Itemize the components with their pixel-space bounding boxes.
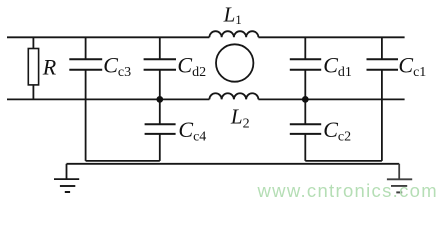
choke core circle bbox=[216, 44, 253, 81]
junction dot node at Cd2/middle rail bbox=[156, 96, 163, 103]
ground right bbox=[387, 164, 412, 193]
svg-text:L2: L2 bbox=[230, 105, 250, 132]
wire middle rail left segment bbox=[7, 98, 209, 100]
svg-text:Cc1: Cc1 bbox=[398, 53, 426, 81]
wire bottom ground rail bbox=[67, 163, 400, 165]
svg-text:Cc2: Cc2 bbox=[323, 117, 351, 145]
inductor L1 bbox=[209, 31, 258, 37]
capacitor Cc2 bbox=[290, 124, 321, 161]
svg-text:www.cntronics.com: www.cntronics.com bbox=[257, 180, 438, 201]
junction dot node at Cd1/middle rail bbox=[302, 96, 309, 103]
svg-text:Cc3: Cc3 bbox=[103, 52, 131, 80]
svg-text:L1: L1 bbox=[223, 3, 242, 28]
svg-text:R: R bbox=[42, 54, 57, 79]
capacitor Cc3 bbox=[69, 37, 102, 161]
wire top rail left segment bbox=[7, 36, 209, 38]
wire top rail right segment bbox=[258, 36, 404, 38]
capacitor Cd1 bbox=[290, 37, 321, 124]
ground left bbox=[54, 164, 79, 192]
svg-text:Cd1: Cd1 bbox=[323, 52, 352, 80]
inductor L2 bbox=[209, 93, 258, 99]
capacitor Cc1 bbox=[367, 37, 399, 161]
capacitor Cc4 bbox=[145, 124, 176, 161]
wire bottom link Cc2 to Cc1 bbox=[305, 160, 382, 162]
wire middle rail right segment bbox=[258, 98, 404, 100]
wire bottom link Cc3 to Cc4 bbox=[86, 160, 160, 162]
capacitor Cd2 bbox=[144, 37, 176, 124]
resistor R bbox=[28, 37, 38, 99]
svg-text:Cd2: Cd2 bbox=[177, 52, 206, 80]
svg-text:Cc4: Cc4 bbox=[178, 117, 206, 145]
